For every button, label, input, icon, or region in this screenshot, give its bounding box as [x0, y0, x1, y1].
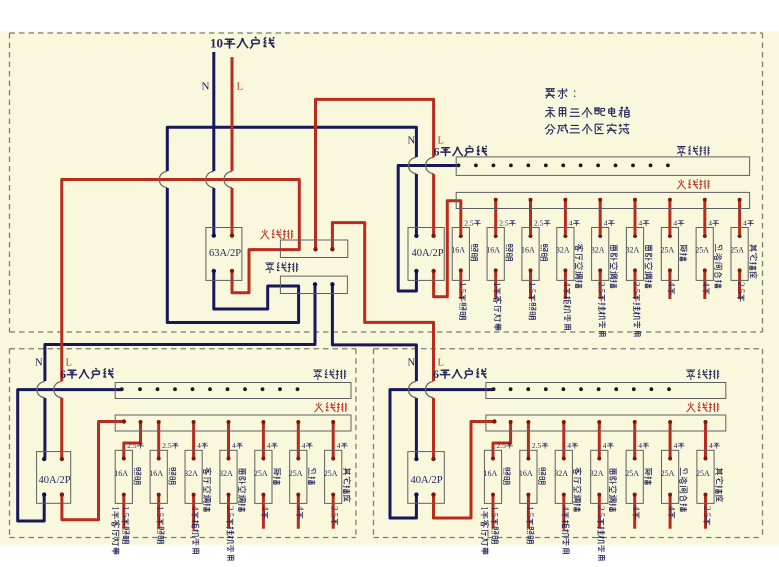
svg-text:L: L	[66, 358, 72, 369]
svg-text:6: 6	[433, 367, 439, 381]
svg-text:4: 4	[604, 219, 608, 228]
svg-text:2.5: 2.5	[464, 219, 474, 228]
svg-text:4: 4	[267, 441, 271, 450]
svg-text:4: 4	[673, 219, 677, 228]
svg-text:63A/2P: 63A/2P	[209, 248, 241, 259]
svg-text:2.5: 2.5	[497, 441, 507, 450]
svg-text:1: 1	[480, 506, 490, 511]
svg-text:1: 1	[110, 506, 120, 511]
svg-text:4: 4	[337, 441, 341, 450]
svg-text:4: 4	[667, 506, 677, 511]
svg-text:2.5: 2.5	[632, 282, 642, 294]
svg-text:25A: 25A	[324, 469, 338, 478]
svg-text:4: 4	[302, 441, 306, 450]
svg-text:2.5: 2.5	[702, 506, 712, 518]
svg-text:N: N	[408, 136, 416, 147]
svg-text:6: 6	[434, 145, 440, 159]
svg-text:2.5: 2.5	[225, 506, 235, 518]
svg-text:16A: 16A	[114, 469, 128, 478]
svg-text:4: 4	[232, 441, 236, 450]
svg-text:4: 4	[569, 219, 573, 228]
svg-text:4: 4	[295, 506, 305, 511]
svg-text:1: 1	[492, 282, 502, 287]
svg-text:32A: 32A	[590, 469, 604, 478]
svg-text:2.5: 2.5	[127, 441, 137, 450]
svg-text:32A: 32A	[554, 469, 568, 478]
svg-text:2.5: 2.5	[597, 282, 607, 294]
svg-text:32A: 32A	[219, 469, 233, 478]
svg-text:32A: 32A	[184, 469, 198, 478]
svg-text:6: 6	[60, 367, 66, 381]
svg-text:10: 10	[210, 36, 223, 51]
svg-text:1.5: 1.5	[490, 506, 500, 518]
svg-text:1.5: 1.5	[457, 282, 467, 294]
svg-text:16A: 16A	[484, 469, 498, 478]
svg-text:4: 4	[260, 506, 270, 511]
svg-text:25A: 25A	[254, 469, 268, 478]
svg-text:2.5: 2.5	[330, 506, 340, 518]
svg-text:4: 4	[701, 282, 711, 287]
svg-text:25A: 25A	[695, 246, 709, 255]
svg-text:40A/2P: 40A/2P	[411, 475, 443, 486]
svg-text:2.5: 2.5	[534, 219, 544, 228]
svg-text:4: 4	[567, 441, 571, 450]
svg-text:4: 4	[560, 506, 570, 511]
svg-text:16A: 16A	[521, 246, 535, 255]
svg-text:25A: 25A	[289, 469, 303, 478]
svg-text:2.5: 2.5	[499, 219, 509, 228]
svg-text:25A: 25A	[660, 246, 674, 255]
svg-text:L: L	[237, 81, 244, 93]
svg-text:40A/2P: 40A/2P	[39, 475, 71, 486]
svg-text:4: 4	[190, 506, 200, 511]
svg-text:1.5: 1.5	[525, 506, 535, 518]
svg-text:4: 4	[743, 219, 747, 228]
svg-text:32A: 32A	[556, 246, 570, 255]
svg-text:25A: 25A	[730, 246, 744, 255]
svg-text:N: N	[408, 358, 416, 369]
svg-text:32A: 32A	[591, 246, 605, 255]
svg-text:1.5: 1.5	[120, 506, 130, 518]
svg-text:4: 4	[674, 441, 678, 450]
svg-text:N: N	[35, 358, 43, 369]
svg-text:32A: 32A	[626, 246, 640, 255]
svg-text:16A: 16A	[486, 246, 500, 255]
svg-text:2.5: 2.5	[162, 441, 172, 450]
svg-text:2.5: 2.5	[736, 282, 746, 294]
svg-text:4: 4	[666, 282, 676, 287]
svg-text:4: 4	[639, 219, 643, 228]
svg-text:4: 4	[709, 441, 713, 450]
svg-text:N: N	[202, 81, 210, 93]
svg-text:25A: 25A	[696, 469, 710, 478]
svg-text:16A: 16A	[451, 246, 465, 255]
svg-text:4: 4	[638, 441, 642, 450]
svg-text:40A/2P: 40A/2P	[412, 248, 444, 259]
svg-text:1.5: 1.5	[527, 282, 537, 294]
svg-text:16A: 16A	[149, 469, 163, 478]
svg-text:1.5: 1.5	[155, 506, 165, 518]
svg-text:25A: 25A	[661, 469, 675, 478]
svg-text:4: 4	[631, 506, 641, 511]
svg-text:4: 4	[562, 282, 572, 287]
svg-text:4: 4	[708, 219, 712, 228]
svg-text:25A: 25A	[625, 469, 639, 478]
svg-text:2.5: 2.5	[532, 441, 542, 450]
svg-text:4: 4	[197, 441, 201, 450]
svg-text:4: 4	[603, 441, 607, 450]
svg-text:2.5: 2.5	[596, 506, 606, 518]
svg-text:16A: 16A	[519, 469, 533, 478]
